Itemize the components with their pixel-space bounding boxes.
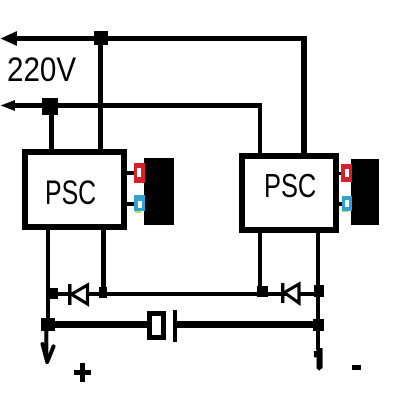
- capacitor C1 left plate: [147, 311, 167, 340]
- wire J2 down to left PSC: [49, 106, 54, 152]
- diode D1: [64, 280, 94, 310]
- wire L1 top horizontal: [8, 36, 307, 41]
- terminal arrow minus (down): [310, 344, 326, 374]
- junction J1 on L1: [94, 31, 108, 45]
- label PSC (U1): [45, 176, 96, 210]
- junction J8: [313, 319, 324, 331]
- terminal arrow plus (down): [34, 328, 60, 366]
- junction J5: [41, 318, 55, 331]
- wire L2 horizontal: [8, 103, 262, 108]
- label 220V: [7, 53, 76, 87]
- PSC box U2 (right): [239, 153, 339, 233]
- wire right PSC bottom-right down (through J7 to J8): [316, 233, 320, 350]
- label PSC (U2): [264, 169, 316, 202]
- wire bottom right segment: [177, 321, 320, 327]
- connector body left (black block): [144, 158, 174, 225]
- red terminal (right PSC): [341, 164, 353, 182]
- wire right PSC bottom-left down to J6: [258, 233, 262, 288]
- blue terminal (right PSC): [342, 196, 353, 211]
- wire left PSC bottom-left down (through J3 to J5): [46, 230, 51, 331]
- connector body right (black block): [351, 159, 380, 225]
- junction J4: [99, 287, 107, 298]
- junction J6: [257, 286, 268, 297]
- green mark under right blue terminal: [342, 209, 348, 212]
- wire bottom left segment: [44, 321, 147, 327]
- wire U2 to red terminal: [336, 172, 343, 176]
- wire left PSC bottom-right down to J4: [101, 230, 106, 290]
- wire L2 end down to right PSC: [258, 103, 263, 155]
- wire diode row horizontal: [50, 292, 318, 297]
- junction J7: [314, 285, 324, 297]
- diode D2: [277, 279, 303, 307]
- label minus: [352, 365, 362, 370]
- junction J3: [47, 288, 58, 299]
- wire U1 to blue terminal: [126, 202, 136, 206]
- PSC box U1 (left): [22, 149, 127, 231]
- capacitor C1 right plate: [173, 310, 178, 341]
- label plus: [74, 370, 91, 375]
- green mark under left blue terminal: [135, 210, 142, 214]
- wire U1 to red terminal: [126, 171, 136, 175]
- wire J1 down to left PSC: [98, 38, 103, 152]
- terminal arrow L1 (left): [0, 29, 20, 48]
- wire L1 corner down to right PSC: [301, 36, 307, 155]
- blue terminal (left PSC): [134, 195, 145, 211]
- wire U2 to blue terminal: [336, 202, 344, 206]
- red terminal (left PSC): [134, 163, 145, 183]
- terminal arrow L2 (left): [0, 97, 18, 114]
- junction J2 on L2: [42, 98, 58, 115]
